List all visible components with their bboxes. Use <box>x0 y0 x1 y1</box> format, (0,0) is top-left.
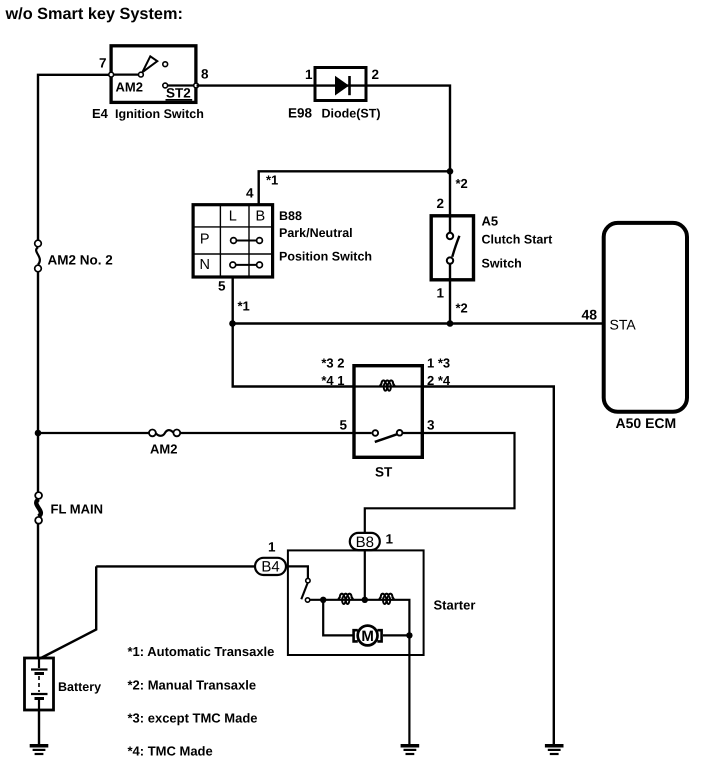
svg-text:AM2: AM2 <box>116 80 143 95</box>
svg-text:1: 1 <box>268 540 276 555</box>
relay switch contact right <box>397 430 403 436</box>
svg-text:2: 2 <box>437 196 445 211</box>
wire: ignition pin7 to left bus down to AM2 No.2 fuse <box>38 75 110 241</box>
svg-text:*4 1: *4 1 <box>321 373 344 388</box>
node: AM2 row junction <box>35 430 42 437</box>
svg-text:AM2 No. 2: AM2 No. 2 <box>48 253 113 268</box>
wire pin7 to contact <box>114 73 139 75</box>
svg-text:E98: E98 <box>288 106 313 121</box>
starter coil 1 <box>338 594 353 604</box>
wire battery to ground <box>38 710 40 744</box>
A5 contact bottom <box>447 257 453 263</box>
svg-text:A50 ECM: A50 ECM <box>616 415 677 431</box>
fuse AM2 <box>149 430 180 437</box>
P row contact <box>231 238 263 244</box>
svg-text:2: 2 <box>372 67 380 82</box>
pin 8 <box>194 83 199 88</box>
svg-text:M: M <box>361 628 374 645</box>
svg-text:Park/Neutral: Park/Neutral <box>279 226 353 240</box>
node coil row B8 <box>362 597 368 603</box>
svg-text:5: 5 <box>339 418 347 433</box>
node motor right <box>406 632 412 638</box>
svg-text:ST2: ST2 <box>166 86 191 101</box>
node STA left junction <box>229 320 236 327</box>
starter switch contact top <box>306 578 310 582</box>
svg-text:Ignition Switch: Ignition Switch <box>115 107 204 121</box>
diode E98 box <box>315 68 366 101</box>
ECM A50 box <box>604 223 687 412</box>
svg-text:1: 1 <box>386 532 394 547</box>
svg-text:E4: E4 <box>92 106 109 121</box>
relay switch lever <box>375 434 399 442</box>
svg-text:Position Switch: Position Switch <box>279 249 372 263</box>
svg-text:Starter: Starter <box>434 598 476 613</box>
svg-text:P: P <box>200 232 210 248</box>
wire STA line to ECM <box>233 322 604 324</box>
switch lever wedge <box>142 56 157 72</box>
svg-text:7: 7 <box>99 56 107 71</box>
svg-text:5: 5 <box>218 279 226 294</box>
wire: branch to B88 pin 4 <box>259 171 450 204</box>
svg-text:B: B <box>255 208 265 224</box>
motor brush right <box>377 630 381 641</box>
A5 contact top <box>447 233 453 239</box>
wire ST2 contact to pin 8 <box>168 84 197 86</box>
svg-text:8: 8 <box>201 67 209 82</box>
diode symbol <box>335 76 349 96</box>
svg-text:B4: B4 <box>261 558 279 575</box>
ignition switch E4 box <box>111 46 196 103</box>
svg-text:*4: TMC Made: *4: TMC Made <box>128 743 213 758</box>
B88 park/neutral switch grid <box>193 205 273 277</box>
svg-text:Battery: Battery <box>58 680 101 694</box>
node coil row left <box>320 597 326 603</box>
starter box <box>288 550 424 655</box>
svg-text:*2: Manual Transaxle: *2: Manual Transaxle <box>128 677 257 692</box>
svg-text:B8: B8 <box>356 534 374 551</box>
wire: B88 pin5 down and right to ST relay coil <box>233 277 354 387</box>
svg-text:*1: *1 <box>238 299 250 314</box>
battery <box>25 658 54 710</box>
svg-text:2 *4: 2 *4 <box>427 373 451 388</box>
ground right <box>545 746 564 754</box>
svg-text:3: 3 <box>427 418 435 433</box>
svg-text:*3: except TMC Made: *3: except TMC Made <box>128 710 258 725</box>
svg-text:1: 1 <box>305 67 313 82</box>
svg-text:ST: ST <box>375 465 393 480</box>
fuse AM2 No. 2 <box>35 240 42 272</box>
fusible link FL MAIN <box>35 492 42 524</box>
contact circle AM2 <box>139 72 144 77</box>
svg-text:B88: B88 <box>279 209 302 223</box>
A5 lever <box>452 236 459 257</box>
svg-text:1: 1 <box>437 286 445 301</box>
svg-text:STA: STA <box>610 317 637 333</box>
relay coil <box>380 380 395 390</box>
svg-text:Clutch Start: Clutch Start <box>482 233 554 247</box>
wire: fuse to FL MAIN <box>37 272 39 492</box>
svg-text:*2: *2 <box>456 176 468 191</box>
relay switch contact left <box>373 430 379 436</box>
wire A5 bottom to STA line <box>449 264 451 324</box>
N row contact <box>230 262 262 268</box>
wire motor branch <box>323 600 409 636</box>
node STA junction at clutch <box>447 320 454 327</box>
wire: pin8 to diode to corner down to A5 <box>197 86 451 233</box>
clutch start switch A5 box <box>431 216 473 280</box>
svg-text:AM2: AM2 <box>150 442 177 457</box>
motor brush left <box>354 630 358 641</box>
contact circle ST2 <box>163 83 168 88</box>
wire B4 corner down diagonal to battery <box>40 566 96 658</box>
ST relay box <box>354 366 422 458</box>
starter switch contact bottom <box>305 598 309 602</box>
starter coil row wire <box>310 600 410 744</box>
node junction diode branch <box>447 168 454 175</box>
svg-text:Diode(ST): Diode(ST) <box>322 107 381 121</box>
wire relay pin3 to B8 <box>365 433 515 533</box>
connector B8 oval <box>350 533 380 550</box>
svg-text:*1: Automatic Transaxle: *1: Automatic Transaxle <box>128 644 275 659</box>
starter switch lever <box>301 582 308 599</box>
wire B4 row <box>96 565 255 567</box>
svg-text:48: 48 <box>582 307 598 323</box>
svg-text:1 *3: 1 *3 <box>427 356 450 371</box>
wire B8 down to starter coil row <box>364 550 366 600</box>
wire: FL MAIN to battery <box>37 524 39 659</box>
connector B4 oval <box>255 558 286 575</box>
svg-text:A5: A5 <box>482 214 499 229</box>
contact circle ST upper <box>163 62 168 67</box>
wire AM2 row from left bus to fuse <box>38 432 149 434</box>
svg-text:4: 4 <box>246 186 254 201</box>
wire fuse to relay switch <box>180 432 372 434</box>
svg-text:*3 2: *3 2 <box>321 356 344 371</box>
svg-text:FL MAIN: FL MAIN <box>51 502 103 517</box>
svg-text:*1: *1 <box>266 173 278 188</box>
motor M <box>358 626 378 646</box>
svg-text:Switch: Switch <box>482 257 522 271</box>
svg-text:N: N <box>199 257 209 273</box>
svg-text:L: L <box>229 208 237 224</box>
wire B4 into starter to switch <box>286 566 308 578</box>
ground battery <box>30 746 49 754</box>
wire relay coil to ground bus right <box>423 387 553 745</box>
ground starter <box>401 746 420 754</box>
svg-text:w/o Smart key System:: w/o Smart key System: <box>5 5 183 23</box>
starter coil 2 <box>379 594 394 604</box>
svg-text:*2: *2 <box>456 301 468 316</box>
